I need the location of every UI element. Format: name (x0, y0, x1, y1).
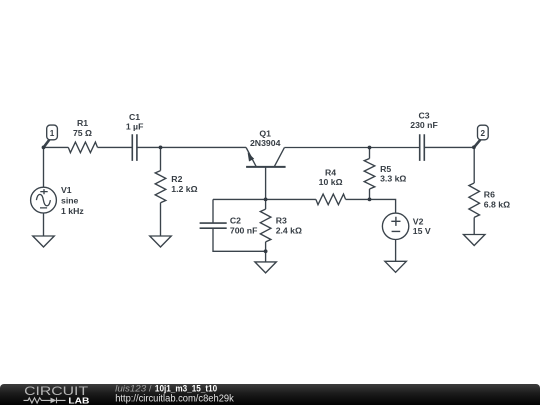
svg-text:10 kΩ: 10 kΩ (319, 177, 343, 187)
svg-text:http://circuitlab.com/c8eh29k: http://circuitlab.com/c8eh29k (115, 393, 234, 404)
svg-text:1.2 kΩ: 1.2 kΩ (171, 184, 197, 194)
svg-text:75 Ω: 75 Ω (73, 128, 92, 138)
svg-text:R2: R2 (171, 174, 182, 184)
svg-text:luis123: luis123 (115, 384, 147, 393)
svg-text:10j1_m3_15_t10: 10j1_m3_15_t10 (155, 384, 217, 393)
svg-text:2: 2 (481, 129, 486, 138)
svg-text:R4: R4 (325, 167, 336, 177)
svg-text:230 nF: 230 nF (410, 120, 438, 130)
svg-text:C1: C1 (129, 112, 140, 122)
svg-text:2N3904: 2N3904 (250, 138, 281, 148)
svg-text:1 µF: 1 µF (126, 121, 144, 131)
svg-text:2.4 kΩ: 2.4 kΩ (276, 226, 302, 236)
svg-text:1: 1 (50, 129, 55, 138)
svg-text:R1: R1 (77, 118, 88, 128)
svg-text:C3: C3 (418, 110, 429, 120)
svg-text:15 V: 15 V (413, 226, 431, 236)
svg-text:R3: R3 (276, 215, 287, 225)
svg-text:V1: V1 (61, 185, 72, 195)
svg-text:sine: sine (61, 195, 79, 205)
svg-text:700 nF: 700 nF (230, 226, 258, 236)
svg-text:R5: R5 (380, 164, 391, 174)
svg-text:1 kHz: 1 kHz (61, 206, 84, 216)
svg-text:3.3 kΩ: 3.3 kΩ (380, 173, 406, 183)
svg-text:C2: C2 (230, 215, 241, 225)
svg-text:R6: R6 (484, 190, 495, 200)
svg-text:/: / (149, 384, 152, 393)
svg-text:Q1: Q1 (259, 128, 271, 138)
svg-text:LAB: LAB (68, 395, 89, 405)
svg-text:6.8 kΩ: 6.8 kΩ (484, 199, 510, 209)
